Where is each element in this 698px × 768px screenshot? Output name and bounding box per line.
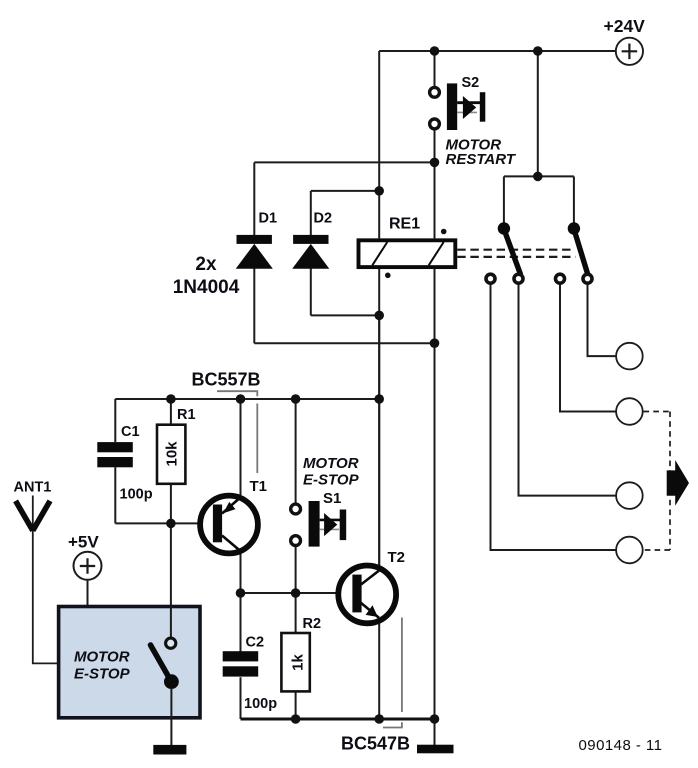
wire D1 cathode lead [253, 162, 255, 235]
junction T2 emitter on rail [374, 714, 384, 724]
wire antenna feed down [33, 496, 59, 664]
contact terminal 1 [486, 274, 495, 283]
diode D1 [236, 211, 277, 269]
relay coil polarity dot upper [441, 229, 447, 235]
resistor R2 [281, 616, 321, 691]
E-stop module box [59, 607, 200, 718]
svg-text:T1: T1 [250, 478, 268, 495]
relay contact pivot 1 [498, 222, 510, 234]
capacitor C1 [97, 424, 152, 503]
svg-text:BC557B: BC557B [192, 369, 261, 389]
wire D2 cathode lead [310, 191, 312, 235]
wire C2 top lead [240, 593, 242, 652]
wire C1 bottom lead [114, 467, 116, 523]
pushbutton S2 [430, 75, 486, 130]
wire line A lower (relay left coil bottom to T2 collector) [378, 269, 380, 567]
wire S1 upper branch [295, 399, 297, 503]
junction S1 branch top [291, 394, 301, 404]
junction R2 bottom on rail [291, 714, 301, 724]
svg-text:D1: D1 [259, 211, 278, 227]
relay contact arm 2 [574, 229, 588, 274]
svg-text:E-STOP: E-STOP [303, 472, 360, 489]
E-stop switch pivot dot [164, 674, 179, 689]
svg-text:D2: D2 [314, 211, 333, 227]
junction T1 collector / y593 [236, 588, 246, 598]
relay contact arm 1 [504, 229, 520, 274]
resistor R1 [157, 407, 196, 484]
svg-text:T2: T2 [388, 549, 406, 566]
wire node y593 (T1 collector to T2 base) [241, 592, 353, 594]
wire contact terminal 1 to output D [491, 285, 617, 550]
direction arrow [667, 460, 689, 506]
wire node y190 (D2 top to line A) [311, 190, 379, 192]
relay RE1 coil box [359, 216, 456, 268]
wire contact terminal 3 to output B [560, 285, 616, 412]
E-stop switch wire inside box [170, 607, 172, 638]
wire +24V rail [379, 50, 615, 52]
output circle D [616, 537, 643, 564]
svg-text:100p: 100p [244, 696, 277, 712]
junction T1 emitter top [236, 394, 246, 404]
wire C2 bottom lead [240, 677, 242, 719]
wire node y343 (D1 bottom to line B) [254, 342, 434, 344]
bottom ground rail [241, 718, 435, 721]
svg-text:S2: S2 [462, 75, 480, 91]
wire contact feed split horizontal [504, 175, 574, 177]
output circle C [616, 482, 643, 509]
svg-text:RESTART: RESTART [446, 151, 517, 168]
wire D1 anode lead [253, 268, 255, 343]
wire contact terminal 2 to output C [519, 285, 617, 496]
E-stop switch terminal [166, 638, 176, 648]
svg-text:C1: C1 [121, 424, 140, 440]
svg-text:1k: 1k [290, 654, 307, 671]
wire T2 emitter vertical [378, 622, 380, 719]
wire R2 top lead [295, 593, 297, 633]
wire D2 anode lead [310, 268, 312, 315]
relay coil polarity dot lower [385, 273, 391, 279]
E-stop switch arm [151, 645, 172, 682]
wire R1 top lead [170, 399, 172, 425]
wire S1 lower branch [295, 547, 297, 593]
wire T1 emitter vertical [240, 399, 242, 495]
wire stub to pivot 1 [503, 176, 505, 224]
capacitor C2 [223, 635, 277, 713]
svg-text:+24V: +24V [604, 16, 646, 36]
svg-text:1N4004: 1N4004 [173, 277, 240, 298]
svg-text:BC547B: BC547B [341, 733, 410, 753]
svg-text:E-STOP: E-STOP [74, 666, 131, 683]
wire R1 bottom lead [170, 484, 172, 524]
contact terminal 3 [556, 274, 565, 283]
relay contact pivot 2 [568, 222, 580, 234]
junction R1 bottom / y523 [166, 519, 176, 529]
wire S2 lower branch [434, 130, 436, 162]
svg-text:MOTOR: MOTOR [303, 455, 359, 472]
junction node y315 [374, 311, 384, 321]
E-stop switch wire down [170, 688, 172, 745]
svg-text:R1: R1 [177, 407, 196, 423]
transistor T1 BC557B (PNP) [200, 478, 267, 554]
junction node S2 bottom [430, 158, 440, 168]
junction R1 top [166, 394, 176, 404]
antenna ANT1 [14, 480, 52, 531]
wire S2 upper branch [434, 51, 436, 86]
power symbol +5V [68, 533, 102, 580]
wire contact terminal 4 to output A [588, 285, 617, 356]
output circle A [616, 343, 643, 370]
wire line B upper (S2 bottom to relay right coil top) [434, 162, 436, 238]
svg-text:MOTOR: MOTOR [74, 649, 130, 666]
diode D2 [292, 211, 332, 269]
svg-text:ANT1: ANT1 [14, 480, 52, 496]
wire line B lower (relay right coil bottom to ground rail) [434, 269, 436, 719]
pointer BC557B to T1 [217, 391, 257, 473]
junction dot rail/S2 [430, 46, 440, 56]
mechanical linkage dashes relay to contacts [457, 249, 573, 251]
wire node y315 (D2 bottom to line A) [311, 314, 379, 316]
wire node y162 (D1 top to S2 bottom) [254, 161, 434, 163]
wire line A (+24V down to relay left coil top) [378, 51, 380, 238]
ground symbol E-stop [153, 745, 186, 755]
wire node y399 rail [115, 398, 379, 400]
power symbol +24V [604, 16, 646, 65]
svg-text:S1: S1 [323, 490, 341, 507]
svg-text:C2: C2 [246, 635, 265, 651]
junction node y343 [430, 338, 440, 348]
output circle B [616, 398, 643, 425]
wire T1 collector vertical [240, 551, 242, 593]
wire R2 bottom lead [295, 691, 297, 719]
junction dot rail/contact feed [533, 46, 543, 56]
contact terminal 4 [583, 274, 592, 283]
junction ground branch on rail [430, 714, 440, 724]
ground symbol main [417, 745, 454, 754]
junction contact feed split [533, 172, 543, 182]
wire relay contact feed from +24V [537, 51, 539, 176]
svg-text:100p: 100p [120, 487, 153, 503]
svg-text:10k: 10k [164, 441, 181, 467]
svg-text:2x: 2x [195, 254, 217, 275]
junction line A / y399 rail [374, 394, 384, 404]
wire stub to pivot 2 [573, 176, 575, 224]
svg-text:RE1: RE1 [389, 216, 420, 233]
pointer BC547B to T2 [383, 618, 402, 728]
pushbutton S1 [291, 490, 347, 547]
wire ground stub main [434, 719, 436, 745]
wire node y523 (C1 to T1 base) [115, 522, 214, 524]
contact terminal 2 [514, 274, 523, 283]
junction node y190 [374, 186, 384, 196]
dashed mechanical link outputs B to D [644, 412, 671, 551]
svg-text:090148 - 11: 090148 - 11 [579, 737, 663, 754]
svg-text:R2: R2 [303, 616, 322, 632]
wire C1 top lead [114, 399, 116, 442]
transistor T2 BC547B (NPN) [338, 549, 405, 623]
wire T2 collector vertical [378, 315, 380, 567]
wire E-stop switch line from y523 junction [170, 523, 172, 637]
wire +5V down to E-stop box [87, 580, 89, 607]
junction S1 bottom / R2 top [291, 588, 301, 598]
svg-text:+5V: +5V [68, 533, 99, 552]
